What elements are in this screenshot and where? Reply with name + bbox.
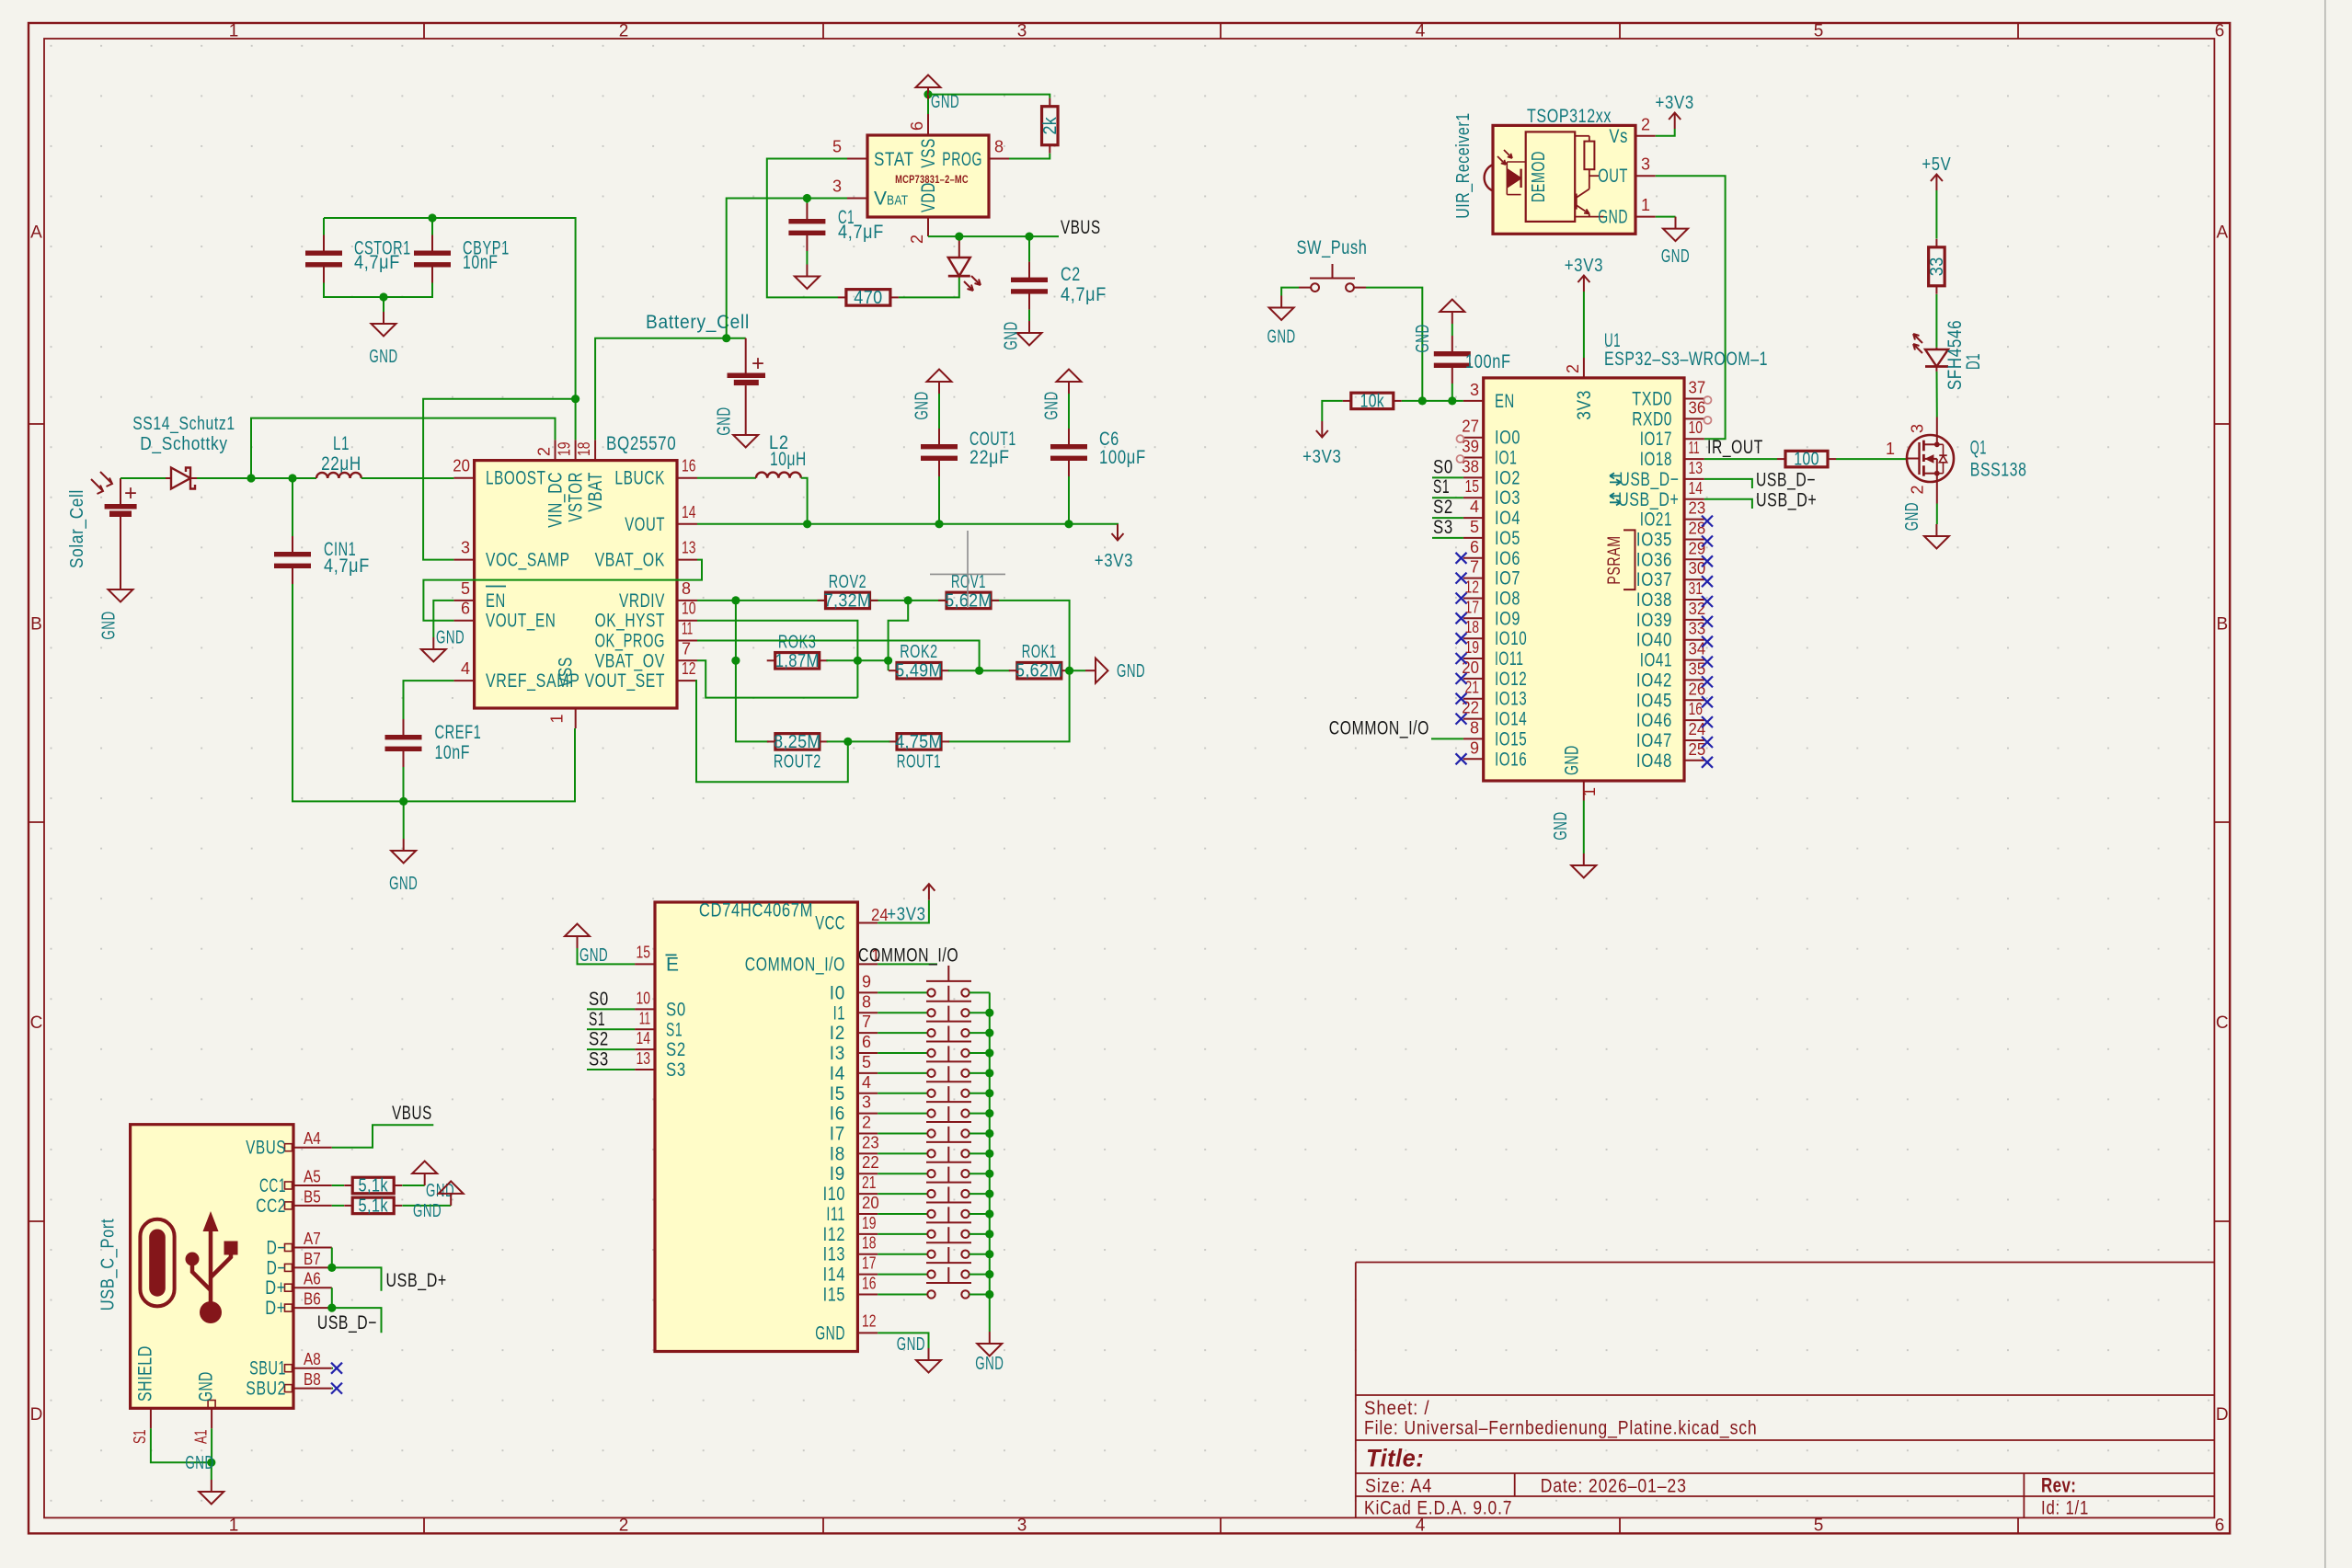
svg-text:CREF1: CREF1 <box>435 722 482 743</box>
svg-text:6: 6 <box>908 121 926 131</box>
svg-text:B8: B8 <box>304 1370 321 1389</box>
junction <box>1448 396 1456 405</box>
power +3V3 <box>1302 421 1341 467</box>
svg-text:IO21: IO21 <box>1640 509 1672 531</box>
junction <box>803 520 811 528</box>
svg-text:16: 16 <box>682 457 696 475</box>
svg-text:3: 3 <box>1470 381 1479 399</box>
svg-text:11: 11 <box>682 620 693 638</box>
svg-text:VBAT: VBAT <box>585 472 606 512</box>
svg-text:VCC: VCC <box>815 913 845 934</box>
svg-text:GND: GND <box>1598 207 1628 228</box>
svg-text:GND: GND <box>1551 811 1571 840</box>
no-connect X <box>1702 596 1713 607</box>
svg-text:SS14_Schutz1: SS14_Schutz1 <box>132 414 235 434</box>
svg-text:4,7μF: 4,7μF <box>324 555 370 577</box>
resistor ROUT2 <box>767 732 828 752</box>
svg-text:VBAT_OK: VBAT_OK <box>595 550 665 571</box>
svg-text:IO38: IO38 <box>1636 589 1672 611</box>
wire ROK2 jog <box>888 660 889 670</box>
wire ROK3 right link <box>826 659 888 661</box>
svg-text:IO16: IO16 <box>1495 749 1527 770</box>
svg-text:4: 4 <box>1416 22 1426 41</box>
wire mux gnd <box>878 1333 928 1348</box>
junction <box>985 1270 993 1278</box>
wire CC2 gnd link <box>402 1205 451 1207</box>
junction <box>843 738 852 746</box>
capacitor CIN1 <box>274 536 370 584</box>
wire CSTOR1 top <box>323 218 325 235</box>
svg-text:3: 3 <box>862 1093 871 1112</box>
svg-text:E: E <box>666 954 680 975</box>
svg-text:I10: I10 <box>823 1184 845 1205</box>
svg-text:6: 6 <box>2215 1516 2225 1536</box>
svg-text:S3: S3 <box>666 1059 686 1081</box>
svg-text:VOUT_SET: VOUT_SET <box>585 670 665 692</box>
svg-text:+: + <box>751 351 764 376</box>
svg-text:4,7μF: 4,7μF <box>838 222 884 243</box>
svg-text:+3V3: +3V3 <box>887 904 925 924</box>
push button switch row I14 <box>878 1247 990 1278</box>
svg-text:A1: A1 <box>192 1430 211 1445</box>
resistor 5,1k CC2 <box>344 1196 402 1216</box>
svg-text:1: 1 <box>229 22 239 41</box>
wire Dminus out <box>332 1267 382 1290</box>
junction <box>985 1190 993 1198</box>
svg-text:I14: I14 <box>823 1265 845 1286</box>
svg-text:L1: L1 <box>333 433 350 454</box>
wire LBUCK to L2 <box>697 477 756 479</box>
svg-text:B7: B7 <box>304 1250 321 1268</box>
no-connect X <box>1456 653 1467 664</box>
svg-text:4,7μF: 4,7μF <box>354 252 400 273</box>
svg-text:33: 33 <box>1689 620 1706 638</box>
ground <box>1661 217 1690 267</box>
no-connect X <box>1702 657 1713 668</box>
svg-text:2: 2 <box>1641 115 1650 133</box>
svg-text:GND: GND <box>1562 745 1583 775</box>
junction <box>379 292 387 301</box>
wire shield gnd <box>151 1428 212 1462</box>
svg-text:17: 17 <box>862 1254 877 1273</box>
junction <box>1418 396 1427 405</box>
wire SBU2 stub <box>332 1388 333 1390</box>
wire A1 gnd <box>211 1428 212 1462</box>
svg-text:I2: I2 <box>830 1023 845 1044</box>
svg-text:OUT: OUT <box>1598 166 1628 187</box>
svg-text:9: 9 <box>1470 738 1479 757</box>
svg-text:15: 15 <box>637 943 651 961</box>
junction <box>1064 520 1073 528</box>
svg-text:GND: GND <box>897 1334 925 1355</box>
junction <box>985 1069 993 1077</box>
svg-text:GND: GND <box>436 628 465 648</box>
capacitor C1 <box>788 203 884 251</box>
wire 100 to gate <box>1836 458 1906 460</box>
transistor Q1 BSS138 MOSFET <box>1886 418 2027 504</box>
svg-text:9: 9 <box>862 972 871 990</box>
svg-text:4,75M: 4,75M <box>895 732 943 752</box>
svg-text:IO48: IO48 <box>1636 750 1672 772</box>
svg-text:1: 1 <box>1580 787 1599 796</box>
svg-text:1: 1 <box>548 714 567 723</box>
no-connect X <box>1702 536 1713 547</box>
PSRAM bracket <box>1605 530 1635 589</box>
svg-text:18: 18 <box>575 442 593 457</box>
svg-text:5: 5 <box>1814 22 1824 41</box>
svg-text:22μH: 22μH <box>321 453 361 475</box>
svg-text:22: 22 <box>862 1153 879 1172</box>
svg-text:C: C <box>30 1013 43 1033</box>
ground <box>185 1453 224 1505</box>
wire VIN_DC net <box>251 418 556 478</box>
svg-text:Vs: Vs <box>1609 126 1628 147</box>
ground <box>897 1334 941 1373</box>
wire VOUT rail <box>697 523 1118 525</box>
svg-text:IO4: IO4 <box>1495 508 1520 529</box>
svg-text:IO3: IO3 <box>1495 487 1520 509</box>
wire VRDIV left vertical <box>736 601 769 742</box>
svg-text:8: 8 <box>682 579 691 598</box>
svg-text:3V3: 3V3 <box>1574 390 1595 420</box>
resistor 2k <box>1040 98 1061 154</box>
wire usb_dm stub <box>1704 479 1752 488</box>
svg-text:OK_HYST: OK_HYST <box>595 611 665 632</box>
wire C2 top <box>1028 236 1030 262</box>
svg-text:IO14: IO14 <box>1495 709 1527 730</box>
page edge line <box>2324 0 2326 1568</box>
wire CREF1 to rail <box>403 767 405 801</box>
svg-text:VBAT_OV: VBAT_OV <box>595 650 665 671</box>
svg-text:1: 1 <box>229 1516 239 1536</box>
svg-text:24: 24 <box>1689 720 1706 738</box>
svg-text:4: 4 <box>1470 498 1479 516</box>
svg-text:+3V3: +3V3 <box>1302 447 1341 467</box>
junction <box>985 1250 993 1258</box>
wire right chain down <box>948 670 1070 741</box>
capacitor C6 <box>1050 429 1146 476</box>
junction <box>985 1089 993 1097</box>
svg-text:1: 1 <box>1641 196 1650 214</box>
svg-text:7: 7 <box>682 639 691 658</box>
svg-text:Sheet: /: Sheet: / <box>1364 1398 1429 1419</box>
junction <box>327 1264 336 1272</box>
wire solar to diode <box>120 477 166 479</box>
svg-text:S0: S0 <box>589 989 609 1010</box>
svg-text:8: 8 <box>862 992 871 1011</box>
svg-text:IO17: IO17 <box>1640 429 1672 450</box>
no-connect X <box>1702 676 1713 687</box>
svg-text:19: 19 <box>862 1214 877 1232</box>
svg-text:B: B <box>30 615 42 635</box>
svg-text:100: 100 <box>1794 450 1819 470</box>
capacitor C2 <box>1011 262 1107 310</box>
wire VRDIV row b <box>869 600 947 601</box>
junction <box>247 474 255 482</box>
junction <box>731 657 740 665</box>
svg-text:15: 15 <box>1465 477 1480 496</box>
no-connect X <box>1702 757 1713 768</box>
wire label S2 <box>587 1048 635 1050</box>
wire diode to L1 <box>197 477 316 479</box>
svg-text:VSS: VSS <box>556 657 577 687</box>
svg-text:USB_D−: USB_D− <box>1619 469 1679 490</box>
svg-text:6: 6 <box>1470 538 1479 556</box>
svg-text:5: 5 <box>1814 1516 1824 1536</box>
svg-text:GND: GND <box>975 1354 1004 1374</box>
wire VSS gnd rail <box>404 728 575 801</box>
wire VBAT_OK to VOUT_EN <box>423 560 702 621</box>
no-connect X <box>1456 612 1467 624</box>
svg-text:LBUCK: LBUCK <box>614 468 665 489</box>
svg-text:8: 8 <box>994 138 1004 156</box>
svg-text:12: 12 <box>862 1311 877 1330</box>
svg-text:B6: B6 <box>304 1290 321 1309</box>
svg-text:GND: GND <box>196 1371 217 1402</box>
svg-text:IO13: IO13 <box>1495 689 1527 710</box>
power +5V <box>1922 155 1951 190</box>
no-connect X <box>1456 633 1467 644</box>
solar cell Solar_Cell <box>67 472 137 578</box>
wire CBYP1 top <box>431 218 433 235</box>
svg-text:File: Universal–Fernbedienung_: File: Universal–Fernbedienung_Platine.ki… <box>1364 1418 1758 1439</box>
resistor 10k <box>1343 391 1402 411</box>
title block frame <box>1356 1263 2215 1518</box>
svg-text:GND: GND <box>1413 324 1433 352</box>
junction <box>399 797 407 806</box>
svg-text:S2: S2 <box>666 1039 686 1060</box>
wire VRDIV row c <box>990 601 1070 670</box>
ground <box>975 1332 1004 1374</box>
push button switch row I2 <box>878 1006 990 1037</box>
resistor 5,1k CC1 <box>344 1176 402 1196</box>
svg-text:IR_OUT: IR_OUT <box>1707 437 1763 458</box>
svg-text:IO37: IO37 <box>1636 569 1672 590</box>
svg-text:S1: S1 <box>1433 476 1450 498</box>
svg-text:34: 34 <box>1689 640 1706 658</box>
svg-text:4,7μF: 4,7μF <box>1061 284 1107 305</box>
svg-text:36: 36 <box>1689 398 1706 417</box>
svg-text:6: 6 <box>461 600 470 618</box>
svg-text:2: 2 <box>1564 364 1582 373</box>
wire ROK1 right <box>1069 670 1086 671</box>
svg-text:EN: EN <box>1495 391 1515 412</box>
svg-text:ROUT2: ROUT2 <box>774 751 821 772</box>
svg-text:IO1: IO1 <box>1495 448 1517 469</box>
push button switch row I1 <box>878 986 990 1017</box>
junction <box>327 1304 336 1312</box>
ground <box>1042 370 1082 420</box>
junction <box>985 1170 993 1178</box>
wire CC2 net <box>332 1205 344 1207</box>
inductor L2 10uH <box>756 432 807 478</box>
svg-text:USB_D+: USB_D+ <box>386 1270 447 1291</box>
resistor ROK3 <box>767 632 828 671</box>
svg-text:BAT: BAT <box>887 193 908 209</box>
svg-text:VSS: VSS <box>918 138 939 168</box>
wire CC1 gnd link <box>402 1185 424 1186</box>
svg-text:Q1: Q1 <box>1970 438 1987 459</box>
svg-text:+: + <box>124 481 137 506</box>
unconnected pin circle <box>1457 455 1464 463</box>
wire VOUT_SET net <box>696 681 848 782</box>
unconnected pin circle <box>1704 396 1712 404</box>
svg-text:IO40: IO40 <box>1636 630 1672 651</box>
svg-text:I0: I0 <box>830 982 845 1003</box>
no-connect X <box>1702 616 1713 627</box>
junction <box>722 334 730 342</box>
ground <box>1268 296 1296 348</box>
junction <box>1065 667 1073 675</box>
svg-text:2k: 2k <box>1040 116 1061 134</box>
wire VSS up <box>927 95 929 114</box>
svg-text:GND: GND <box>1002 321 1022 349</box>
svg-text:24: 24 <box>871 906 889 924</box>
svg-text:14: 14 <box>1689 479 1704 498</box>
ground <box>389 839 418 894</box>
junction <box>731 596 740 604</box>
svg-text:20: 20 <box>862 1194 879 1212</box>
no-connect X <box>1702 576 1713 587</box>
svg-text:A: A <box>2216 223 2228 243</box>
wire 2k to PROG <box>1009 154 1050 159</box>
svg-text:5: 5 <box>461 579 470 598</box>
svg-text:7: 7 <box>1470 558 1479 577</box>
wire OK_PROG net <box>697 641 980 671</box>
wire VOC_SAMP net <box>423 399 575 560</box>
wire SW to EN <box>1366 288 1422 401</box>
svg-text:8,25M: 8,25M <box>774 732 821 752</box>
svg-text:ROK1: ROK1 <box>1022 642 1057 662</box>
svg-text:TSOP312xx: TSOP312xx <box>1527 106 1612 127</box>
svg-text:VOC_SAMP: VOC_SAMP <box>486 550 570 571</box>
svg-text:VBUS: VBUS <box>392 1103 432 1124</box>
svg-text:S1: S1 <box>131 1430 149 1445</box>
svg-text:I7: I7 <box>830 1123 845 1144</box>
wire label S2 <box>1432 517 1463 519</box>
svg-text:GND: GND <box>389 874 418 894</box>
wire 470 to LED <box>899 276 959 297</box>
svg-text:Date: 2026–01–23: Date: 2026–01–23 <box>1541 1476 1687 1497</box>
svg-text:VRDIV: VRDIV <box>619 590 665 612</box>
svg-text:IO11: IO11 <box>1495 648 1524 670</box>
no-connect X <box>1456 673 1467 684</box>
junction <box>975 667 983 675</box>
no-connect X <box>331 1383 342 1394</box>
wire CC1 net <box>332 1185 344 1186</box>
no-connect X <box>1456 553 1467 564</box>
svg-text:COMMON_I/O: COMMON_I/O <box>745 954 845 975</box>
svg-text:5,49M: 5,49M <box>895 661 943 681</box>
power +3V3 <box>1095 524 1133 571</box>
wire VBUS usb <box>332 1125 434 1148</box>
wire VSTOR top rail <box>324 218 576 440</box>
no-connect X <box>1456 573 1467 584</box>
push button switch row I0 <box>878 966 990 997</box>
wire ROV jog <box>889 601 909 660</box>
wire ROUT mid <box>827 740 890 742</box>
svg-text:10: 10 <box>682 600 696 618</box>
svg-text:A5: A5 <box>304 1168 321 1186</box>
svg-text:5,62M: 5,62M <box>945 590 992 611</box>
svg-text:BSS138: BSS138 <box>1970 459 2027 480</box>
junction <box>985 1029 993 1037</box>
wire 10k to EN <box>1402 400 1463 402</box>
no-connect X <box>1702 716 1713 727</box>
resistor ROK2 <box>889 642 949 681</box>
svg-text:+3V3: +3V3 <box>1656 93 1694 113</box>
svg-text:S0: S0 <box>666 999 686 1020</box>
svg-text:2: 2 <box>619 1516 629 1536</box>
svg-text:1: 1 <box>1886 440 1895 458</box>
push button switch row I15 <box>878 1267 990 1299</box>
capacitor COUT1 <box>921 429 1016 476</box>
svg-text:GND: GND <box>579 945 608 966</box>
svg-text:S3: S3 <box>1433 517 1453 538</box>
svg-text:I11: I11 <box>826 1204 845 1225</box>
wire SBU1 stub <box>332 1368 333 1369</box>
wire VBAT net <box>595 338 746 441</box>
svg-text:22μF: 22μF <box>969 447 1010 468</box>
svg-text:3: 3 <box>1909 424 1927 433</box>
svg-text:13: 13 <box>1689 459 1704 477</box>
svg-text:5: 5 <box>1470 518 1479 536</box>
svg-text:V: V <box>874 189 888 210</box>
svg-text:Size: A4: Size: A4 <box>1365 1476 1432 1497</box>
svg-text:VDD: VDD <box>918 182 939 212</box>
svg-text:31: 31 <box>1689 579 1704 598</box>
wire label S1 <box>1432 497 1463 498</box>
svg-text:GND: GND <box>1268 327 1296 348</box>
wire Dplus pair <box>331 1288 333 1308</box>
ground <box>421 628 465 662</box>
resistor ROUT1 <box>889 732 949 752</box>
svg-text:GND: GND <box>1117 661 1145 681</box>
wire Dminus pair <box>331 1248 333 1268</box>
resistor ROV1 <box>938 572 999 612</box>
svg-text:19: 19 <box>556 442 574 457</box>
svg-text:5,1k: 5,1k <box>359 1176 389 1196</box>
svg-text:B: B <box>2216 615 2228 635</box>
ground <box>916 75 960 113</box>
wire drain to led <box>1936 372 1938 418</box>
svg-text:2: 2 <box>535 447 554 456</box>
svg-text:A6: A6 <box>304 1270 321 1288</box>
push button switch row I5 <box>878 1066 990 1097</box>
svg-text:30: 30 <box>1689 559 1706 578</box>
wire IR_OUT net <box>1704 458 1777 460</box>
junction <box>854 657 862 665</box>
ground <box>369 312 397 367</box>
svg-text:GND: GND <box>99 611 120 639</box>
svg-text:3: 3 <box>1017 22 1027 41</box>
wire OK_HYST net <box>697 621 857 698</box>
resistor 100 <box>1777 450 1836 470</box>
push button switch row I8 <box>878 1127 990 1158</box>
wire input node down <box>292 478 293 536</box>
capacitor 100nF <box>1434 336 1471 383</box>
wire label S3 <box>1432 537 1463 539</box>
svg-text:S2: S2 <box>589 1029 609 1050</box>
connector USB_C_Port <box>98 1125 332 1444</box>
svg-text:12: 12 <box>682 659 696 678</box>
no-connect X <box>1702 696 1713 707</box>
svg-text:PROG: PROG <box>942 149 982 170</box>
wire cap up <box>1451 324 1453 336</box>
wire cap gnd bar <box>324 283 432 298</box>
push button switch row I12 <box>878 1207 990 1238</box>
junction <box>207 1459 215 1467</box>
